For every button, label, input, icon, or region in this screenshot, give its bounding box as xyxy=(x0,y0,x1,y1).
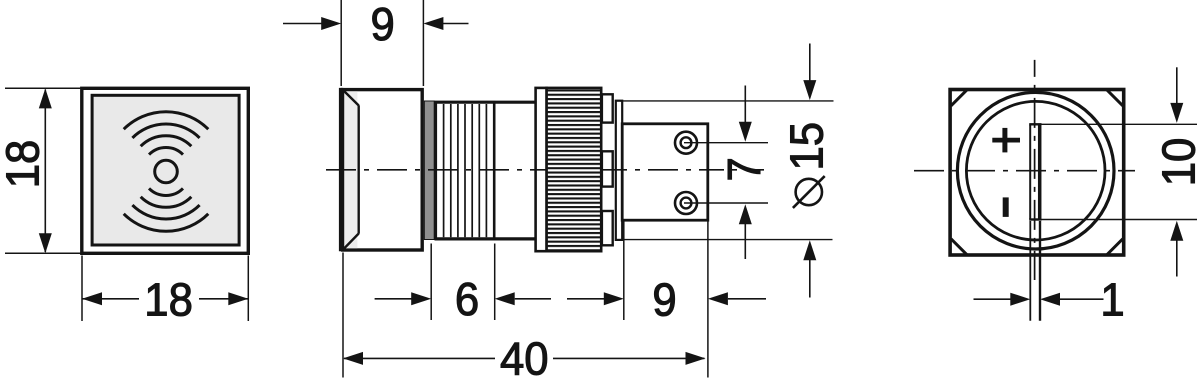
dim 40: arrows xyxy=(343,352,706,365)
dim 9 bottom: left tail and arrow xyxy=(567,292,624,305)
left view: bottom extension line right xyxy=(247,256,249,322)
left view: inner square xyxy=(92,95,239,245)
middle view: nut washer xyxy=(536,88,547,251)
dim 10: dimension line and arrows xyxy=(1170,67,1183,276)
middle view: bottom terminal eyelet xyxy=(675,192,697,214)
middle view: rear housing step xyxy=(616,101,622,240)
right view: slot xyxy=(1029,124,1041,219)
dim 1: label xyxy=(1100,273,1124,326)
middle view: thread lines xyxy=(444,104,487,237)
svg-text:15: 15 xyxy=(780,122,833,171)
dim d15: label 15 xyxy=(780,122,833,171)
middle view: extension line 9 right xyxy=(422,0,424,86)
left view: arrow down xyxy=(39,233,52,253)
middle view: bottom extension lines xyxy=(343,222,708,378)
middle view: horizontal centerline xyxy=(326,169,764,171)
middle view: top dim 9 left tail and arrow xyxy=(283,17,341,30)
right view: minus symbol xyxy=(1003,197,1009,217)
dim d15: diameter symbol xyxy=(793,176,825,208)
left view: outer square xyxy=(82,88,249,253)
dim 7: label xyxy=(718,157,771,181)
dim 6: left tail and arrow xyxy=(375,292,432,305)
left view: bottom dimension line 18 xyxy=(82,298,248,300)
middle view: extension line 9 left xyxy=(340,0,342,86)
left view: bottom arrow left xyxy=(82,292,102,305)
svg-text:18: 18 xyxy=(144,273,193,326)
svg-text:9: 9 xyxy=(652,273,676,326)
svg-text:7: 7 xyxy=(718,157,771,181)
middle view: terminal block xyxy=(622,124,708,220)
middle view: button head inner face line xyxy=(358,105,360,233)
middle view: nut tab top xyxy=(602,94,613,122)
middle view: label 9 top xyxy=(370,0,394,50)
svg-text:1: 1 xyxy=(1100,273,1124,326)
dim 7: dimension line and arrows xyxy=(739,86,752,260)
left view: bottom arrow right xyxy=(228,292,248,305)
right view: square body xyxy=(950,90,1124,256)
left view: speaker bottom arcs xyxy=(124,188,209,231)
svg-text:9: 9 xyxy=(370,0,394,50)
svg-text:6: 6 xyxy=(455,273,479,326)
dim 7: extension lines xyxy=(684,143,768,203)
middle view: neck bottom edge xyxy=(435,237,535,240)
middle view: threaded barrel outline xyxy=(436,102,494,239)
left view: label 18 bottom xyxy=(144,273,193,326)
dim d15: dimension line and arrows xyxy=(803,44,816,298)
right view: horizontal centerline xyxy=(914,170,1135,172)
right view: plus symbol xyxy=(992,128,1020,152)
right view: outer circle xyxy=(957,92,1114,249)
right view: slot edge extension lines below xyxy=(1030,221,1040,321)
dim 40: label xyxy=(500,332,549,385)
left view: label 18 vertical xyxy=(0,140,49,189)
svg-text:10: 10 xyxy=(1152,138,1200,187)
dim 10: label xyxy=(1152,138,1200,187)
middle view: top dim 9 right tail and arrow xyxy=(423,17,468,30)
middle view: top terminal eyelet xyxy=(675,132,697,154)
middle view: button head chamfer diagonals xyxy=(343,90,359,250)
dim 40: dimension line xyxy=(344,357,705,359)
svg-text:18: 18 xyxy=(0,140,49,189)
left view: bottom extension line left xyxy=(81,256,83,322)
dim 9 bottom: right arrow and tail xyxy=(708,292,766,305)
middle view: knurled nut body xyxy=(547,88,602,251)
middle view: button head chamfer strip xyxy=(344,91,357,248)
right view: vertical centerline xyxy=(1034,60,1036,280)
left view: extension line bottom xyxy=(5,252,81,254)
left view: speaker center circle xyxy=(155,160,178,183)
middle view: button head body xyxy=(341,88,422,251)
right view: inner circle xyxy=(966,101,1105,240)
svg-text:40: 40 xyxy=(500,332,549,382)
dim 6: right arrow and shared tail xyxy=(495,292,551,305)
right view: corner chamfer marks xyxy=(951,90,1123,255)
dim 1: left tail and arrow xyxy=(974,293,1031,306)
middle view: gray shoulder band xyxy=(424,101,434,240)
left view: extension line top xyxy=(5,87,81,89)
dim 9 bottom: label xyxy=(652,273,676,326)
dim d15: extension lines xyxy=(620,101,834,240)
dim 1: right arrow and tail xyxy=(1040,293,1104,306)
left view: vertical dimension line 18 xyxy=(44,90,46,253)
middle view: nut tab bottom xyxy=(602,211,613,245)
middle view: nut tab middle xyxy=(602,151,613,186)
left view: arrow up xyxy=(39,88,52,108)
dim 6: label xyxy=(455,273,479,326)
middle view: neck top edge xyxy=(435,101,535,104)
dim 10: extension lines xyxy=(1041,124,1197,219)
left view: speaker top arcs xyxy=(124,112,209,155)
